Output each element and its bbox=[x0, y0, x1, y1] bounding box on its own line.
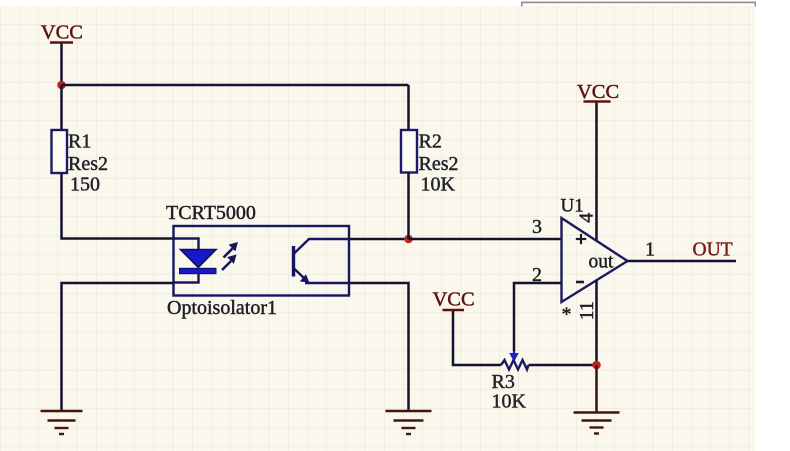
junction node A (VCC rail / R1) bbox=[57, 81, 66, 90]
svg-text:VCC: VCC bbox=[577, 81, 619, 103]
wire top rail to R2 bbox=[62, 84, 409, 87]
svg-text:VCC: VCC bbox=[41, 22, 83, 44]
op-amp - input mark bbox=[576, 281, 584, 284]
wire VCC2 down and right to R3 bbox=[453, 311, 501, 365]
svg-text:3: 3 bbox=[532, 216, 542, 238]
svg-text:OUT: OUT bbox=[693, 240, 733, 261]
svg-text:Optoisolator1: Optoisolator1 bbox=[167, 297, 277, 319]
phototransistor emitter lead with arrow bbox=[294, 269, 349, 284]
svg-text:R1: R1 bbox=[68, 131, 91, 153]
svg-text:4: 4 bbox=[575, 213, 597, 223]
resistor R2 bbox=[401, 130, 417, 173]
wire R1 bottom to LED anode bbox=[62, 173, 175, 239]
svg-text:1: 1 bbox=[645, 239, 655, 261]
LED cathode bar bbox=[180, 268, 217, 273]
resistor R3 zigzag bbox=[501, 360, 529, 370]
svg-text:VCC: VCC bbox=[433, 289, 475, 311]
wire op-amp output bbox=[628, 260, 737, 263]
power port VCC (middle, R3 bias) bbox=[433, 289, 475, 311]
ground GND3 (right) bbox=[574, 413, 620, 434]
op-amp U1 triangle bbox=[562, 218, 628, 302]
wire R2 bottom to junction B bbox=[407, 173, 410, 240]
svg-text:TCRT5000: TCRT5000 bbox=[166, 202, 256, 224]
LED emission arrow 2 bbox=[222, 255, 237, 271]
ground GND2 (middle) bbox=[386, 411, 432, 434]
wire emitter to ground bbox=[349, 283, 409, 411]
svg-text:10K: 10K bbox=[492, 391, 527, 413]
wire junction C to ground bbox=[595, 365, 598, 412]
svg-text:out: out bbox=[589, 252, 615, 273]
junction node C (R3 / pin 11 / ground) bbox=[592, 361, 601, 370]
svg-text:Res2: Res2 bbox=[419, 153, 459, 175]
wire VCC1 stub to junction bbox=[60, 44, 63, 86]
wire op-amp pin 2 to R3 wiper bbox=[514, 283, 562, 351]
LED emission arrow 1 bbox=[224, 242, 239, 258]
wire junction down to R1 bbox=[60, 85, 63, 131]
wire LED cathode to ground bbox=[62, 283, 175, 411]
power port VCC (top right, op-amp supply) bbox=[577, 81, 619, 103]
LED cathode lead (pin 2) bbox=[174, 274, 199, 283]
wire R3 to junction C bbox=[529, 364, 597, 367]
svg-text:Res2: Res2 bbox=[68, 153, 108, 175]
svg-text:150: 150 bbox=[70, 174, 100, 196]
power port VCC (top left) bbox=[41, 22, 83, 44]
svg-text:10K: 10K bbox=[421, 174, 456, 196]
resistor R1 bbox=[52, 130, 68, 173]
svg-text:11: 11 bbox=[576, 301, 598, 320]
wire rail down to R2 bbox=[407, 85, 410, 131]
R3 wiper arrow bbox=[509, 351, 518, 362]
wire junction to op-amp pin 3 bbox=[409, 238, 562, 241]
svg-text:R2: R2 bbox=[419, 131, 442, 153]
LED triangle bbox=[181, 250, 217, 268]
wire collector to junction bbox=[349, 238, 409, 241]
ground GND1 (left) bbox=[41, 411, 83, 434]
op-amp + input mark bbox=[576, 234, 586, 244]
svg-text:*: * bbox=[562, 304, 572, 326]
optoisolator U? box (Optoisolator1) bbox=[174, 226, 350, 296]
phototransistor base bar bbox=[292, 246, 295, 277]
wire op-amp pin 11 down bbox=[595, 280, 598, 365]
junction node B (R2 / collector / op-amp +) bbox=[404, 235, 413, 244]
LED anode lead (pin 1) bbox=[174, 239, 199, 251]
wire VCC3 down to op-amp pin 4 bbox=[595, 103, 598, 241]
phototransistor collector lead bbox=[294, 239, 349, 254]
